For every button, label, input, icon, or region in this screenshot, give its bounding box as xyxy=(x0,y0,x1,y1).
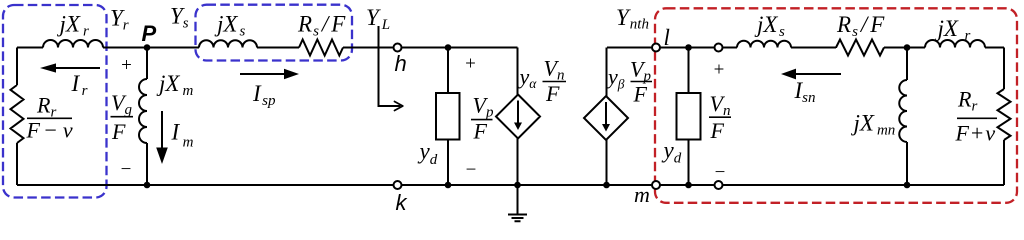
svg-text:F: F xyxy=(473,119,488,144)
svg-text:F: F xyxy=(545,81,560,106)
svg-text:F+v: F+v xyxy=(955,121,996,146)
svg-text:l: l xyxy=(664,25,670,50)
svg-text:−: − xyxy=(715,162,726,183)
svg-text:P: P xyxy=(142,21,157,46)
svg-text:F−v: F−v xyxy=(26,118,73,143)
svg-text:−: − xyxy=(466,160,477,181)
svg-text:k: k xyxy=(396,190,408,215)
svg-text:h: h xyxy=(395,51,407,76)
svg-text:m: m xyxy=(634,182,650,207)
svg-text:Rs/F: Rs/F xyxy=(836,12,885,40)
svg-text:+: + xyxy=(714,60,725,81)
svg-text:+: + xyxy=(465,54,476,75)
svg-text:F: F xyxy=(710,118,725,143)
svg-text:F: F xyxy=(633,82,648,107)
svg-text:F: F xyxy=(111,119,126,144)
svg-text:Rs/F: Rs/F xyxy=(297,12,346,40)
svg-text:−: − xyxy=(121,159,132,180)
svg-text:+: + xyxy=(121,55,132,76)
